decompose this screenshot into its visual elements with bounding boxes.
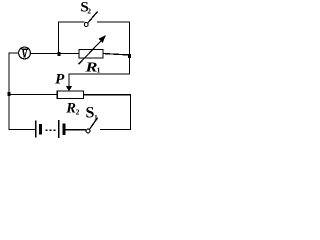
svg-text:2: 2: [87, 6, 91, 15]
svg-text:2: 2: [76, 108, 80, 117]
svg-text:1: 1: [94, 113, 98, 122]
svg-text:R: R: [84, 61, 97, 76]
svg-text:P: P: [55, 71, 65, 87]
svg-text:1: 1: [97, 66, 101, 75]
